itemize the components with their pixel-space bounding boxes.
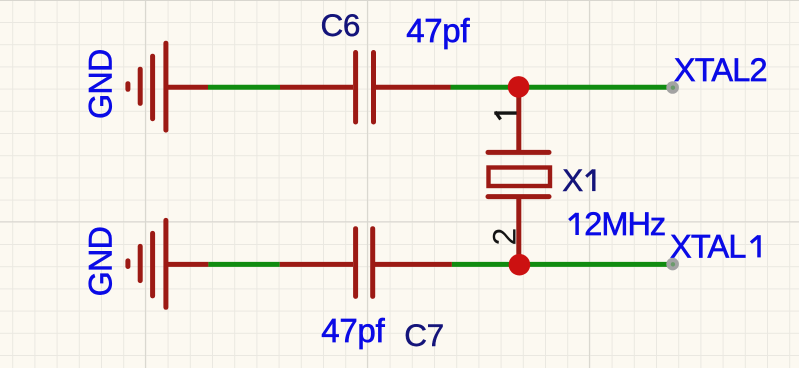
junction node (bottom)	[509, 254, 531, 276]
svg-text:C7: C7	[404, 317, 443, 353]
crystal X1 symbol	[488, 152, 550, 196]
capacitor C7	[356, 229, 373, 297]
pin of bottom ground symbol	[166, 262, 208, 267]
pin 2 of capacitor C7	[374, 262, 452, 267]
wire (green, bottom left net)	[208, 262, 279, 267]
pin 1 of capacitor C6	[280, 85, 353, 90]
capacitor C6	[356, 53, 374, 123]
pin 1 of capacitor C7	[280, 262, 353, 267]
wire XTAL1 net (green, bottom)	[452, 262, 672, 267]
pin number 1	[494, 112, 516, 120]
svg-text:2: 2	[487, 228, 523, 246]
svg-text:47pf: 47pf	[406, 12, 470, 49]
label 12MHz value of X1	[569, 206, 665, 242]
svg-text:GND: GND	[82, 227, 118, 297]
wire XTAL2 net (green, top)	[451, 85, 673, 90]
label X1 designator	[562, 162, 594, 198]
pin 2 of capacitor C6	[376, 85, 451, 90]
ground symbol (bottom GND)	[128, 220, 166, 307]
svg-text:47pf: 47pf	[321, 312, 385, 349]
pin 1 of crystal X1 (vertical)	[516, 87, 521, 152]
svg-text:XTAL2: XTAL2	[674, 52, 767, 88]
svg-text:GND: GND	[82, 49, 118, 119]
svg-text:2MHz: 2MHz	[584, 206, 665, 242]
svg-text:XTAL: XTAL	[670, 228, 746, 264]
junction node (top)	[508, 76, 530, 98]
net label XTAL1	[670, 228, 759, 264]
ground symbol (top GND)	[128, 43, 166, 130]
svg-text:X: X	[562, 162, 583, 198]
pin 2 of crystal X1 (vertical)	[516, 197, 521, 265]
svg-text:C6: C6	[321, 7, 360, 43]
port dot XTAL2 wire end	[666, 81, 679, 94]
wire (green, top left net)	[208, 85, 280, 90]
pin of top ground symbol	[166, 85, 208, 90]
port dot XTAL1 wire end	[666, 258, 679, 271]
